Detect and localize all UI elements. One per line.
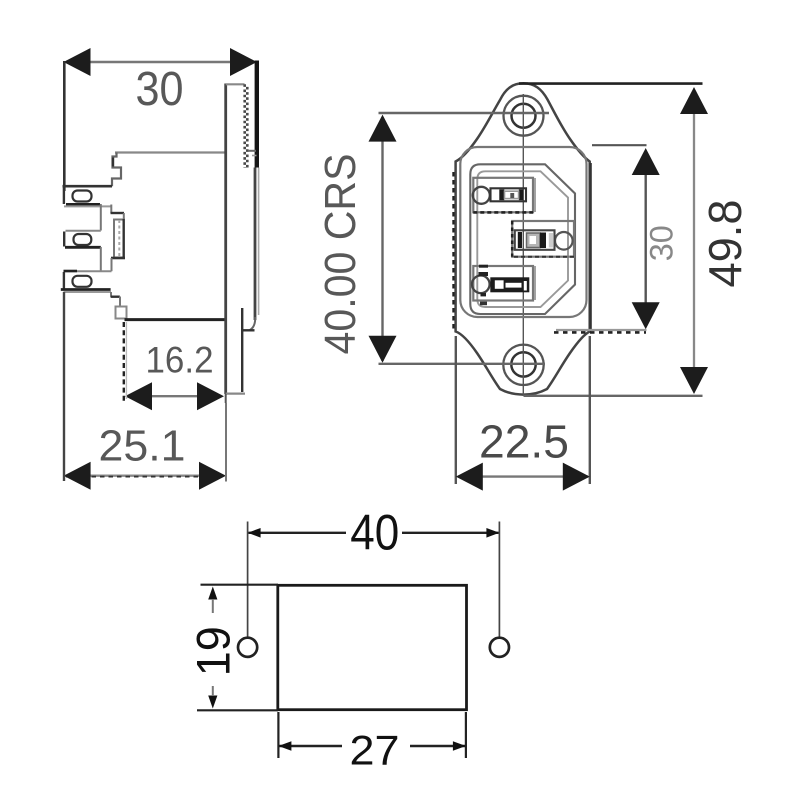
dimension 19 bottom arrow <box>208 696 217 709</box>
bottom mounting hole inner <box>511 352 535 376</box>
flange left side hidden-edge dashes <box>452 172 454 330</box>
flange front face <box>224 84 227 395</box>
bottom mounting hole outer <box>503 345 543 385</box>
dimension 16.2 left arrow <box>125 382 152 410</box>
dimension 19 top arrow <box>208 587 217 600</box>
dimension 25.1 line <box>66 475 223 477</box>
svg-text:30: 30 <box>644 225 680 261</box>
terminal 1 circle <box>473 187 490 204</box>
dimension 49.8 top arrow <box>680 87 708 114</box>
flange rear upper hatched strip <box>243 84 246 168</box>
pin 3 lower gray line <box>64 291 112 293</box>
flange top edge <box>226 83 245 85</box>
edge below tower <box>111 258 113 271</box>
dimension 25.1 left arrow <box>64 462 91 490</box>
dimension 16.2 right arrow <box>197 382 224 410</box>
dimension 25.1 right extension <box>225 403 227 482</box>
dimension 40.00 CRS bottom extension <box>379 363 546 365</box>
right mounting hole <box>490 638 509 657</box>
dimension 49.8 bottom arrow <box>680 367 708 394</box>
cutout rectangle <box>278 585 467 709</box>
recess outline outer <box>470 164 575 314</box>
terminal 1 blade window <box>505 191 519 198</box>
top mounting hole inner <box>512 104 536 128</box>
left mounting hole <box>238 638 257 657</box>
dimension 22.5 left extension <box>455 336 457 484</box>
pin 1 top edge <box>63 185 113 188</box>
dimension 30 left extension line <box>63 61 66 191</box>
notch near bottom-left corner <box>116 307 127 319</box>
dimension 22.5 line <box>458 475 588 477</box>
svg-text:25.1: 25.1 <box>99 422 186 471</box>
dimension 22.5 right extension <box>589 336 591 484</box>
rear lower line <box>241 308 243 392</box>
dimension 40.00 CRS top arrow <box>369 115 397 142</box>
dimension 16.2 line <box>127 395 220 397</box>
dimension 19 bottom extension <box>197 709 278 711</box>
dimension 30 (front) top extension <box>592 144 647 146</box>
terminal 2 blade bars <box>518 232 522 248</box>
recess outline inner <box>477 171 568 307</box>
dimension 40.00 CRS top extension <box>379 112 550 114</box>
dimension 27 left arrow <box>278 741 291 751</box>
flange bottom edge <box>226 393 245 395</box>
dimension 40 right arrow <box>486 528 499 538</box>
terminal 2 frame <box>512 221 574 257</box>
dimension 30 (front) top arrow <box>632 148 660 175</box>
dimension 30 right arrow <box>230 48 257 76</box>
pin 2 tip <box>63 232 65 247</box>
flange right side dark edge <box>589 163 591 331</box>
pin 3 slot <box>73 276 92 287</box>
flange rear mid line <box>254 168 257 321</box>
dimension 27 left extension <box>277 712 279 758</box>
pin 3 tip <box>63 272 65 289</box>
svg-text:27: 27 <box>350 727 400 774</box>
pin 1 bottom edge <box>66 203 100 206</box>
dimension 30 (front) bottom arrow <box>632 302 660 329</box>
dimension 27 right extension <box>465 712 467 758</box>
dimension 40 right extension <box>498 522 500 638</box>
flange outline <box>456 83 590 394</box>
rear step <box>242 329 255 331</box>
pin 2 slot <box>74 234 92 245</box>
dimension 30 (front) line <box>645 151 647 324</box>
body top-left corner step and tab <box>112 153 121 187</box>
socket outer rounded rectangle <box>460 147 586 317</box>
small step lines near y=151 <box>248 150 256 152</box>
terminal 1 blade outer <box>491 188 527 201</box>
pin 1 slot <box>73 191 92 202</box>
terminal 3 blade <box>490 277 529 292</box>
pin 3 top edge <box>64 270 112 272</box>
terminal 2 blade outer <box>515 230 555 250</box>
body top edge <box>115 151 227 153</box>
terminal 3 frame <box>473 266 533 301</box>
dimension 40 left extension <box>247 522 249 638</box>
earth tower bottom edge <box>111 257 125 260</box>
svg-text:49.8: 49.8 <box>699 200 751 288</box>
dimension 22.5 left arrow <box>456 463 483 491</box>
dimension 30 left arrow <box>64 48 91 76</box>
vertical centre line <box>522 94 524 396</box>
dimension 30 line <box>66 61 254 64</box>
stem between pin1 and pin2 <box>100 204 102 231</box>
terminal 3 lower tick <box>480 302 487 306</box>
dimension 40 line <box>249 532 347 534</box>
body bottom edge <box>125 318 227 321</box>
top mounting hole outer <box>504 96 544 136</box>
dimension 25.1 right arrow <box>199 462 226 490</box>
pin 3 bottom edge <box>61 288 111 291</box>
dimension 40 left arrow <box>248 528 261 538</box>
pin 1 lower gray line <box>64 205 112 207</box>
dimension 16.2 left extension <box>123 322 125 403</box>
dimension 30 (front) bottom extension <box>556 329 647 331</box>
terminal 3 circle <box>472 276 490 294</box>
pin 1 tip <box>63 187 65 204</box>
terminal 3 circle ticks <box>479 272 489 276</box>
terminal 1 frame <box>473 178 533 213</box>
dimension 40.00 CRS line <box>381 117 383 361</box>
pin 2 bottom edge <box>65 246 101 249</box>
terminal 1 blade dark bars <box>499 190 504 201</box>
svg-text:40: 40 <box>350 505 399 561</box>
dimension 30 right extension line (black thick) <box>255 61 259 168</box>
svg-text:16.2: 16.2 <box>146 340 214 381</box>
pin 2 top edge <box>66 230 101 232</box>
dimension 49.8 bottom extension <box>524 395 703 397</box>
dimension 27 right arrow <box>453 741 466 751</box>
earth tower <box>114 220 124 258</box>
terminal 2 circle <box>555 232 573 250</box>
stem between pin2 and pin3 <box>100 247 102 271</box>
dimension 19 top extension <box>201 584 279 586</box>
dimension 22.5 right arrow <box>563 463 590 491</box>
svg-text:22.5: 22.5 <box>479 416 569 468</box>
svg-text:30: 30 <box>136 63 184 116</box>
dimension 25.1 left extension <box>63 292 65 481</box>
step to earth tower <box>110 205 112 214</box>
dimension 16.2 right extension <box>225 394 227 403</box>
dimension 40.00 CRS bottom arrow <box>369 336 397 363</box>
dimension 49.8 line <box>693 91 695 391</box>
svg-text:19: 19 <box>187 626 240 676</box>
dimension 49.8 top extension <box>519 82 703 85</box>
dimension 27 line <box>278 745 342 747</box>
step below pin3 <box>111 292 120 297</box>
rear hook <box>249 317 255 331</box>
svg-text:40.00 CRS: 40.00 CRS <box>316 154 365 355</box>
